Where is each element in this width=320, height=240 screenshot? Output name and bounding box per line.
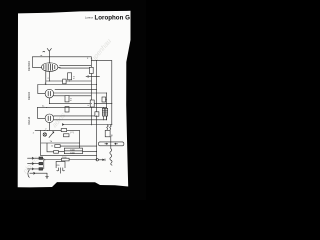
tube V2 electrodes [48, 91, 50, 96]
mains line 2 [28, 163, 40, 165]
wire row y159.5 [44, 159, 97, 161]
electrolytic cap B hatches [105, 110, 108, 114]
wire tube2 grid row [54, 95, 92, 97]
wire row y151.4 [59, 150, 97, 152]
tube V3 electrodes [48, 116, 50, 121]
tube V1 REN904 envelope [42, 63, 58, 72]
resistor box on bus96 [95, 112, 99, 116]
electrolytic cap A [102, 108, 104, 116]
resistor box 1000 b [64, 151, 82, 154]
svg-text:Lorophon G: Lorophon G [95, 15, 131, 22]
ground symbol [46, 173, 49, 178]
resistor box rectifier [61, 129, 66, 132]
fuse bus vertical [43, 158, 45, 169]
fuse box 2 [39, 162, 43, 164]
tube V1 electrodes [44, 64, 55, 71]
wire row y124.5 [62, 124, 112, 126]
jack vertical [110, 137, 112, 149]
stage3 top wire y107.4 [37, 106, 106, 108]
switch end right [122, 142, 124, 146]
stage2 top wire y84.5 [38, 84, 97, 86]
wire row y81 [46, 80, 91, 82]
transformer center tap [60, 168, 62, 173]
rheostat arrow [49, 132, 54, 138]
svg-text:Lorenz: Lorenz [85, 15, 94, 19]
wire row y76.3 [86, 75, 100, 77]
wire row y89 [55, 89, 97, 91]
switch arrow left [105, 143, 108, 144]
switch end left [98, 142, 100, 146]
svg-text:RE114: RE114 [27, 116, 31, 124]
speaker feed zigzag b [110, 125, 112, 130]
capacitor box small [63, 79, 66, 84]
wire tube1 second row [60, 67, 92, 69]
switch arrow right [115, 143, 118, 144]
tiny annotation labels [27, 55, 114, 173]
tube V1 tip [58, 66, 60, 68]
wire row y130.4 [35, 130, 80, 148]
jack resistor box [105, 130, 110, 136]
switch contact lower [100, 145, 122, 147]
resistor box 1000 a [64, 148, 82, 151]
stage1 left rail wire [32, 57, 41, 68]
wire tube3 anode row [54, 115, 97, 117]
electrolytic cap A hatches [102, 110, 104, 114]
fuse box 3 [39, 168, 43, 170]
wire top link y61.5 [91, 60, 112, 62]
cap A leads [103, 107, 105, 119]
resistor box on bus91 lower [90, 100, 94, 107]
wire tube2 anode row [54, 92, 107, 94]
resistor box on bus91 upper [89, 67, 93, 73]
resistor box row107 [65, 107, 69, 112]
transformer leg 2 [63, 168, 65, 171]
bus vertical x96.5 [96, 61, 98, 160]
tube V3 envelope [45, 114, 54, 123]
tube V2 RE034 envelope [45, 89, 54, 98]
wire inner corner [41, 143, 80, 152]
wire tube2 cathode drop [48, 98, 50, 104]
resistor box rectifier2 [64, 134, 70, 137]
top bus wire y57 [32, 56, 91, 58]
faint diagonal watermark [22, 38, 113, 175]
cord end hook [111, 160, 112, 165]
antenna aux mark [43, 50, 45, 53]
wire rect left rail [40, 130, 42, 155]
svg-text:REN904: REN904 [27, 61, 31, 71]
resistor box stub [105, 99, 108, 101]
title "Lorenz" [85, 15, 94, 19]
svg-text:1k: 1k [51, 145, 53, 147]
transformer leg 1 [57, 168, 59, 171]
fuse box 1 [39, 157, 43, 159]
earth plug arc [28, 170, 29, 177]
resistor box row102 [65, 96, 69, 102]
bus vertical x91.5 [90, 57, 92, 125]
cap B leads [105, 107, 107, 119]
svg-text:RE034: RE034 [27, 92, 31, 100]
plug arrow line [98, 159, 105, 161]
wire row y102 [49, 103, 111, 105]
stage2 left rail [38, 85, 45, 94]
wire tube1 anode row [60, 64, 92, 66]
switch contact upper [100, 141, 122, 143]
antenna Y [47, 48, 51, 63]
plug circle arrow [96, 159, 98, 161]
junction dots [44, 56, 113, 151]
mains line 3 [28, 168, 40, 170]
white page [18, 11, 131, 188]
resistor box 2000 [62, 158, 70, 161]
wire tube3 grid row [54, 119, 107, 121]
pilot lamp circle [43, 133, 46, 136]
resistor box small [54, 151, 59, 154]
svg-text:220: 220 [57, 165, 60, 167]
speaker feed zigzag a [107, 125, 109, 130]
bus vertical x106.5 [106, 93, 108, 120]
capacitor box 0,1 [68, 73, 72, 80]
resistor box small2 [55, 145, 60, 148]
resistor box right upper [102, 97, 106, 102]
wire row y155.7 [41, 155, 97, 157]
wire tube1 cathode drop [46, 71, 50, 85]
stage3 left rail [37, 107, 45, 118]
wire row y146.1 [59, 145, 97, 147]
mains line 1 [28, 157, 40, 159]
title "Lorophon G" [95, 15, 131, 22]
earth line arrow [30, 172, 47, 174]
svg-text:( 2 ): ( 2 ) [70, 132, 74, 134]
electrolytic cap B [105, 108, 108, 116]
transformer outline [56, 161, 65, 167]
speaker cord squiggle [110, 149, 112, 161]
wire tube3 cathode drop [48, 123, 50, 131]
bus vertical x112.5 [111, 61, 113, 125]
